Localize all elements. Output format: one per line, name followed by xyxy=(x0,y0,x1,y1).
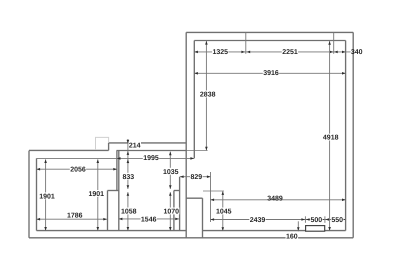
svg-text:1546: 1546 xyxy=(141,216,157,223)
svg-text:1058: 1058 xyxy=(121,209,137,216)
svg-text:1035: 1035 xyxy=(163,169,179,176)
svg-text:4918: 4918 xyxy=(323,135,339,142)
svg-text:340: 340 xyxy=(351,49,363,56)
svg-text:2838: 2838 xyxy=(200,92,216,99)
svg-text:829: 829 xyxy=(190,174,202,181)
svg-text:1901: 1901 xyxy=(39,193,55,200)
svg-text:3916: 3916 xyxy=(263,70,279,77)
svg-text:1325: 1325 xyxy=(213,49,229,56)
svg-text:550: 550 xyxy=(331,217,343,224)
svg-text:1901: 1901 xyxy=(89,191,105,198)
svg-text:3489: 3489 xyxy=(267,196,283,203)
svg-text:2439: 2439 xyxy=(250,217,266,224)
svg-text:833: 833 xyxy=(122,174,134,181)
svg-text:1995: 1995 xyxy=(143,155,159,162)
svg-text:1786: 1786 xyxy=(67,212,83,219)
svg-text:500: 500 xyxy=(310,217,322,224)
svg-text:1045: 1045 xyxy=(216,209,232,216)
svg-text:2056: 2056 xyxy=(70,166,86,173)
svg-text:1070: 1070 xyxy=(164,209,180,216)
svg-text:214: 214 xyxy=(129,143,141,150)
svg-text:160: 160 xyxy=(286,234,298,241)
svg-text:2251: 2251 xyxy=(282,49,298,56)
